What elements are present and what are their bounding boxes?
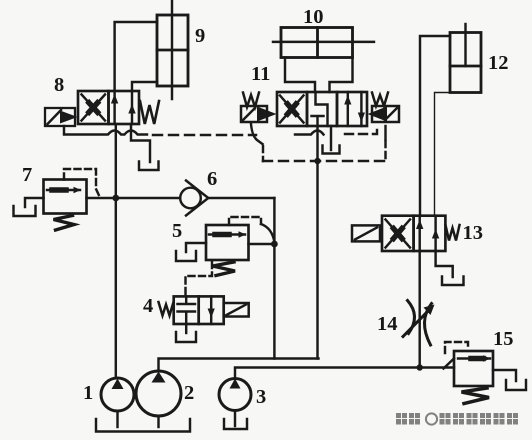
- right solenoid of valve 11: [368, 106, 400, 122]
- wire valve5 drain to tank: [186, 243, 206, 252]
- tank below pumps 1,2: [96, 419, 190, 432]
- dashed drain line y161: [263, 160, 386, 162]
- relief valve 7: [44, 180, 87, 214]
- wire valve4 to tank: [185, 324, 187, 333]
- pump 3: [219, 379, 251, 411]
- pilot line of valve 15: [444, 342, 469, 369]
- check valve 6: [116, 181, 275, 216]
- wire valve11 P down to pump2 line: [316, 126, 318, 359]
- wire pump2 output: [159, 359, 319, 372]
- tank left of valve 7: [14, 206, 36, 216]
- drain from left solenoid 11: [251, 124, 263, 144]
- svg-text:5: 5: [172, 220, 182, 242]
- drain from right solenoid 11: [384, 126, 386, 161]
- wire pump3 suction: [234, 411, 236, 427]
- relief valve 15: [454, 351, 493, 386]
- svg-text:2: 2: [184, 382, 194, 404]
- svg-text:8: 8: [54, 74, 64, 96]
- spring of valve 15: [462, 388, 490, 404]
- spring W of valve 4: [159, 302, 174, 316]
- wire cylinder12 bottom port to valve13 B: [435, 93, 451, 216]
- wire pump1 suction: [116, 411, 118, 427]
- dashed drain line to valve 11: [153, 134, 256, 136]
- left solenoid of valve 11: [241, 106, 277, 122]
- svg-text:4: 4: [143, 295, 153, 317]
- throttle valve 14: [403, 301, 435, 346]
- pump 1: [101, 378, 134, 411]
- pump 2: [136, 371, 181, 416]
- drain wire from solenoid 8 (with hops): [64, 126, 147, 135]
- wire valve15 out to tank: [493, 370, 516, 381]
- node at (317.5,161): [314, 158, 320, 164]
- svg-text:7: 7: [22, 164, 32, 186]
- valve 8: [78, 91, 139, 124]
- wire valve8 T to tank: [131, 124, 150, 162]
- pilot line of valve 7: [64, 169, 100, 197]
- solenoid of valve 8: [45, 108, 78, 126]
- svg-text:12: 12: [488, 52, 509, 74]
- right spring W of valve 11: [372, 93, 388, 107]
- drain squiggle below valve 11 center: [295, 131, 324, 135]
- svg-text:11: 11: [251, 63, 270, 85]
- cylinder 9: [157, 0, 188, 99]
- wire pump3 output to valve15: [235, 368, 454, 379]
- tank left of valve 5: [176, 251, 196, 261]
- tank right of valve 15: [506, 380, 526, 390]
- wire valve7 to main line: [87, 197, 116, 199]
- svg-text:13: 13: [463, 222, 484, 244]
- spring W of valve 13: [446, 225, 460, 241]
- svg-text:3: 3: [256, 386, 266, 408]
- wire valve8-A to cylinder9 top: [115, 22, 157, 91]
- wire pump2 suction: [157, 416, 159, 427]
- wire valve13 P down through throttle: [418, 251, 420, 368]
- node main line / valve7 / check6: [112, 195, 119, 202]
- wire cylinder10 right port to valve11 B: [330, 58, 353, 93]
- vent pilot line valve5 to valve4: [186, 262, 213, 296]
- spring W of valve 8: [140, 101, 159, 124]
- valve 11: [277, 92, 367, 126]
- wire cylinder12 left port to valve13 A: [420, 36, 450, 216]
- wire valve7 drain to tank: [25, 198, 44, 207]
- watermark 头条@大兰液压科技: [396, 413, 518, 425]
- tank below valve 8: [139, 162, 159, 171]
- node junction pump3 line: [417, 364, 423, 370]
- spring of valve 5: [213, 262, 236, 276]
- svg-text:10: 10: [303, 6, 324, 28]
- wire pump1 to valve8 P (main pressure line): [115, 124, 117, 378]
- cylinder 12: [450, 24, 481, 93]
- tank below pump 3: [224, 419, 247, 429]
- relief valve 5: [206, 225, 249, 260]
- wire valve13 T to tank: [436, 251, 453, 277]
- wire valve5 outlet: [249, 243, 275, 245]
- solenoid of valve 4: [224, 303, 249, 317]
- wire valve8-B to cylinder9 bottom: [132, 82, 157, 91]
- svg-text:14: 14: [377, 313, 398, 335]
- svg-text:9: 9: [195, 25, 205, 47]
- dashed drain under spring 11: [345, 128, 377, 135]
- svg-text:15: 15: [493, 328, 514, 350]
- valve 13: [382, 216, 445, 251]
- left spring W of valve 11: [243, 93, 259, 108]
- tank below valve 13: [442, 277, 464, 286]
- svg-text:6: 6: [207, 168, 217, 190]
- valve 4: [174, 296, 224, 324]
- wire check6 down to pump2 line: [273, 198, 275, 359]
- svg-text:1: 1: [83, 382, 93, 404]
- pilot line of valve 5: [229, 217, 274, 242]
- wire cylinder10 left port to valve11 A: [285, 58, 315, 93]
- spring of valve 7: [54, 216, 75, 231]
- node valve5 outlet: [271, 241, 278, 248]
- solenoid of valve 13: [352, 225, 380, 241]
- tank below valve 11: [323, 126, 340, 154]
- cylinder 10: [273, 28, 374, 58]
- tank below valve 4: [176, 332, 196, 342]
